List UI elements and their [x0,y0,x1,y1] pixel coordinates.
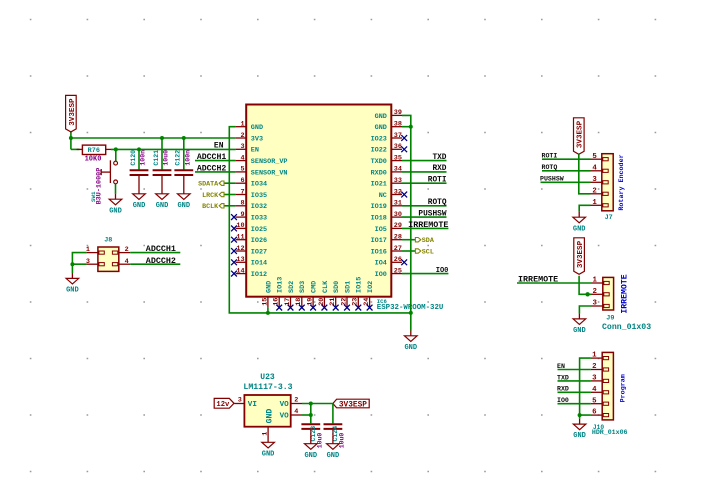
svg-text:29: 29 [394,222,402,230]
svg-text:SENSOR_VP: SENSOR_VP [251,158,288,166]
IC6 pin 5 (SENSOR_VN) [236,166,288,178]
J7 field Rotary Encoder [618,154,626,210]
svg-text:IO19: IO19 [371,203,387,211]
svg-text:4: 4 [294,408,298,416]
connector J8 [86,236,130,271]
svg-text:GND: GND [265,281,273,293]
svg-text:RXD0: RXD0 [371,169,387,177]
wire ADCCH1 from J8 pin 2 [130,252,180,254]
net label TXD (at IC6) [432,154,446,162]
IC6 pin 21 (SD0) [329,281,341,311]
ground (J7) [573,212,586,233]
svg-text:GND: GND [266,409,275,424]
svg-text:ADCCH2: ADCCH2 [146,256,176,266]
svg-text:J7: J7 [605,214,613,222]
power flag 3V3ESP (J9) [574,238,585,274]
regulator U23 body [244,395,290,427]
svg-text:C121: C121 [153,150,160,166]
wire ADCCH2 to pin 5 [195,171,236,173]
svg-text:2: 2 [125,246,129,254]
junction pin38 GND [409,125,413,129]
svg-text:10u0: 10u0 [163,150,170,166]
wire TXD to J10 pin 3 [558,380,591,382]
svg-text:3: 3 [592,176,597,184]
junction pin15 GND [266,311,270,315]
svg-text:IO35: IO35 [251,192,267,200]
svg-text:6: 6 [592,409,597,417]
svg-text:IO25: IO25 [251,226,267,234]
svg-text:9: 9 [241,211,245,219]
svg-text:EN: EN [251,147,259,155]
svg-text:SD2: SD2 [288,281,296,293]
connector J9 [592,277,614,310]
wire J10 pin 1 loop to pin 6 and ground [580,358,591,419]
capacitor C124 [324,424,343,441]
wire GND pins 39/38 down right side [402,115,411,330]
junction 3V3/C122 [182,136,186,140]
IC6 reference [377,298,388,305]
svg-text:IO0: IO0 [375,271,387,279]
wire ADCCH2 from J8 pin 4 [130,263,180,265]
J10 reference [593,424,604,431]
ground (C122) [177,189,190,210]
svg-text:10: 10 [236,222,244,230]
svg-text:EN: EN [214,142,224,151]
svg-text:3: 3 [592,300,597,308]
svg-text:GND: GND [156,202,169,210]
IC6 pin 25 (IO0) [375,267,402,279]
svg-text:10u0: 10u0 [339,433,346,449]
IC6 pin 30 (IO18) [371,211,402,223]
svg-text:NC: NC [379,192,387,200]
svg-text:IO21: IO21 [371,181,387,189]
svg-text:27: 27 [394,245,402,253]
svg-text:ROTI: ROTI [542,153,558,160]
wire SDA from pin 28 [402,239,415,241]
U23 pin 1 (GND) [261,409,274,437]
svg-text:ROTI: ROTI [428,177,447,185]
svg-text:GND: GND [177,202,190,210]
svg-text:14: 14 [236,267,244,275]
J9 reference [606,314,614,322]
svg-text:100n: 100n [185,150,192,166]
svg-text:IRREMOTE: IRREMOTE [518,274,558,284]
svg-text:2: 2 [592,288,596,296]
J10 value HDR_01x06 [592,429,628,436]
svg-text:VI: VI [248,401,257,409]
svg-text:35: 35 [394,154,402,162]
svg-text:4: 4 [241,154,245,162]
wire TXD from pin 35 [402,160,447,162]
svg-text:1: 1 [261,432,269,436]
svg-text:2: 2 [592,187,596,195]
svg-text:3: 3 [241,143,245,151]
net label RXD (at IC6) [432,165,446,173]
C123 value 10u0 [316,433,323,449]
svg-text:38: 38 [394,121,402,129]
svg-text:IO4: IO4 [375,260,387,268]
IC6 pin 18 (SD3) [295,281,307,311]
svg-text:IO0: IO0 [557,397,569,404]
svg-text:IO15: IO15 [356,277,364,293]
wire SDATA to pin 6 [224,182,236,184]
wire IRREMOTE from pin 29 [402,227,448,229]
IC6 pin 16 (IO13) [273,277,285,311]
IC6 pin 31 (IO19) [371,200,402,212]
U23 pin 4 (VO) [280,408,302,421]
svg-text:25: 25 [394,267,402,275]
svg-text:ADCCH2: ADCCH2 [197,165,227,174]
IC6 pin 39 (GND) [375,109,402,121]
svg-text:4: 4 [125,258,129,266]
svg-text:Program: Program [620,374,628,402]
junction J9 pin 2 [585,292,589,296]
svg-text:ADCCH1: ADCCH1 [146,244,176,254]
svg-text:GND: GND [133,202,146,210]
junction U23 VO pin 4 [309,413,313,417]
svg-text:3: 3 [592,375,597,383]
global label 3V3ESP (at U23 output) [333,399,369,409]
ESP32 module IC6 body [246,105,391,297]
net label ROTI (at J7) [542,153,558,160]
svg-text:C120: C120 [130,150,137,166]
wire SCL from pin 27 [402,250,415,252]
wire IRREMOTE to J9 pin 1 [517,282,592,284]
wire EN to J10 pin 2 [558,369,591,371]
ground (C123) [304,438,317,459]
J7 reference [605,214,613,222]
wire 3V3 bus to pin 2 [71,137,236,139]
IC6 pin 3 (EN) [236,143,259,155]
svg-text:12v: 12v [216,401,230,409]
IC6 pin 9 (IO33) [231,211,267,223]
IC6 pin 26 (IO4) [375,256,407,268]
svg-text:RXD: RXD [557,386,569,393]
IC6 pin 14 (IO12) [231,267,267,279]
net label PUSHSW (at IC6) [418,210,446,218]
net label ADCCH2 (at IC6) [197,165,227,174]
capacitor C121 [153,150,172,189]
IC6 pin 12 (IO27) [231,245,267,257]
svg-text:RXD: RXD [432,165,446,173]
svg-text:J8: J8 [104,236,112,244]
svg-text:37: 37 [394,132,402,140]
svg-text:31: 31 [394,200,402,208]
net label RXD (at J10) [557,386,569,393]
IC6 pin 33 (IO21) [371,177,402,189]
net label ROTI (at IC6) [428,177,447,185]
svg-text:GND: GND [251,124,263,132]
svg-text:EN: EN [557,363,565,370]
junction EN/C120 [137,147,141,151]
capacitor C123 [301,424,320,441]
wire J9 pin 3 to ground [579,306,591,314]
svg-text:LRCK: LRCK [202,192,219,200]
svg-text:4: 4 [592,164,597,172]
net label ROTQ (at J7) [542,164,558,171]
ground (IC6 GND bus) [404,331,417,352]
wire 3V3ESP to J9 pin 2 [579,276,591,295]
IC6 pin 37 (IO23) [371,132,408,144]
IC6 pin 22 (SD1) [340,281,352,311]
svg-text:IO18: IO18 [371,215,387,223]
svg-text:28: 28 [394,234,402,242]
U23 value LM1117-3.3 [243,383,292,392]
svg-text:2: 2 [592,363,596,371]
net label ADCCH1 (at IC6) [197,153,227,162]
IC6 pin 34 (RXD0) [371,166,402,178]
hierarchical label SDATA [198,181,224,189]
svg-text:IRREMOTE: IRREMOTE [621,274,630,313]
IC6 pin 36 (IO22) [371,143,408,155]
connector J10 [591,352,614,420]
hierarchical label SCL [415,248,433,256]
wire 3V3ESP to C124 [332,404,334,424]
svg-text:ROTQ: ROTQ [542,164,558,171]
SW1 value B3U-1000P [96,168,104,205]
net label IRREMOTE (at IC6) [408,220,448,230]
svg-text:36: 36 [394,143,402,151]
svg-text:IO14: IO14 [251,260,267,268]
wire ROTI from pin 33 [402,182,447,184]
svg-text:ROTQ: ROTQ [428,199,447,207]
svg-text:3V3ESP: 3V3ESP [577,240,585,268]
wire PUSHSW to J7 pin 3 [541,181,591,183]
wire GND from pin 1 around left and bottom of IC6 [229,127,410,313]
svg-text:IO12: IO12 [251,271,267,279]
net label IO0 (at IC6) [436,267,449,275]
svg-text:SDA: SDA [422,237,435,245]
svg-text:SDATA: SDATA [198,181,219,189]
IC6 value ESP32-WROOM-32U [377,304,444,312]
svg-text:32: 32 [394,188,402,196]
net label EN (at J10) [557,363,565,370]
ground (J9) [573,314,586,335]
svg-text:IO2: IO2 [367,281,375,293]
svg-text:CMD: CMD [311,281,319,293]
junction J10 pin 6 [578,413,582,417]
net label EN (at IC6) [214,142,224,151]
IC6 pin 24 (IO2) [363,281,375,311]
svg-text:10K0: 10K0 [85,155,102,163]
svg-text:IO34: IO34 [251,181,267,189]
svg-text:10u0: 10u0 [316,433,323,449]
svg-text:IO32: IO32 [251,203,267,211]
svg-text:GND: GND [327,452,340,460]
svg-text:SD0: SD0 [333,281,341,293]
svg-text:SD3: SD3 [299,281,307,293]
hierarchical label SDA [415,237,434,245]
svg-text:PUSHSW: PUSHSW [418,210,446,218]
wire PUSHSW from pin 30 [402,216,447,218]
svg-text:100n: 100n [140,150,147,166]
IC6 pin 8 (IO32) [236,200,268,212]
IC6 pin 10 (IO25) [231,222,267,234]
svg-text:2: 2 [241,132,245,140]
svg-text:30: 30 [394,211,402,219]
wire C122 top lead (3V3 net) [183,138,185,169]
capacitor C120 [130,150,149,189]
wire J7 pin 1 to ground [579,205,590,212]
wire 3V3ESP to J7 pin 2 [579,154,591,194]
svg-text:TXD0: TXD0 [371,158,387,166]
svg-text:GND: GND [66,287,79,295]
wire RXD from pin 34 [402,171,447,173]
junction U23 VO/C123 [309,402,313,406]
svg-text:IO13: IO13 [277,277,285,293]
svg-text:VO: VO [280,401,290,409]
svg-text:BCLK: BCLK [202,203,219,211]
svg-text:IO27: IO27 [251,248,267,256]
svg-text:IO33: IO33 [251,215,267,223]
hierarchical label LRCK [202,192,224,200]
IC6 pin 27 (IO16) [371,245,402,257]
svg-text:U23: U23 [260,373,275,382]
ground (C120) [133,189,146,210]
wire pin 15 GND drop [267,307,269,313]
wire ROTI to J7 pin 5 [542,158,591,160]
svg-text:13: 13 [236,256,244,264]
resistor R76 [77,145,112,155]
svg-text:7: 7 [241,188,245,196]
junction 3V3ESP flag [69,136,73,140]
IC6 pin 11 (IO26) [231,234,267,246]
IC6 pin 13 (IO14) [231,256,267,268]
svg-text:1: 1 [241,121,245,129]
svg-text:IO22: IO22 [371,147,387,155]
ground (U23) [262,437,275,458]
C124 value 10u0 [339,433,346,449]
svg-text:GND: GND [573,432,586,440]
svg-text:GND: GND [573,327,586,335]
svg-text:ADCCH1: ADCCH1 [197,153,227,162]
svg-text:IRREMOTE: IRREMOTE [408,220,448,230]
global label 12v [214,398,234,409]
svg-text:26: 26 [394,256,402,264]
wire EN net (R76 to pin 3) [71,148,236,150]
connector J7 [591,153,614,211]
IC6 pin 28 (IO17) [371,234,402,246]
svg-text:GND: GND [404,344,417,352]
wire VO to 3V3ESP label [302,403,333,405]
svg-text:1: 1 [592,277,597,285]
net label ADCCH2 (at J8) [146,256,176,266]
IC6 pin 4 (SENSOR_VP) [236,154,288,166]
svg-text:2: 2 [294,397,298,405]
wire VO pin4 to junction [302,414,311,416]
svg-text:C122: C122 [175,150,182,166]
svg-text:TXD: TXD [557,374,569,381]
IC6 pin 7 (IO35) [236,188,268,200]
svg-text:6: 6 [241,177,245,185]
IC6 pin 32 (NC) [379,188,407,200]
svg-text:IO16: IO16 [371,248,387,256]
svg-text:4: 4 [592,386,597,394]
svg-text:11: 11 [236,234,244,242]
svg-text:5: 5 [241,166,245,174]
IC6 pin 17 (SD2) [284,281,296,311]
net label IRREMOTE (at J9) [518,274,558,284]
J10 field Program [620,374,628,402]
svg-text:3V3: 3V3 [251,135,263,143]
svg-text:5: 5 [592,397,597,405]
svg-text:GND: GND [109,207,122,215]
junction EN/SW1 [114,147,118,151]
wire SW1 bottom to ground [115,184,117,194]
svg-text:CLK: CLK [322,280,330,293]
IC6 pin 2 (3V3) [236,132,263,144]
wire RXD to J10 pin 4 [558,391,591,393]
J9 value Conn_01x03 [602,323,651,332]
svg-text:3V3ESP: 3V3ESP [577,120,585,148]
svg-text:VO: VO [280,413,290,421]
wire IO0 from pin 25 [402,273,448,275]
IC6 pin 6 (IO34) [236,177,268,189]
R76 value 10K0 [85,155,102,163]
svg-text:SENSOR_VN: SENSOR_VN [251,169,288,177]
ground (J10) [573,419,586,440]
svg-text:GND: GND [375,124,387,132]
svg-text:IO23: IO23 [371,135,387,143]
svg-text:3V3ESP: 3V3ESP [69,98,77,126]
net label TXD (at J10) [557,374,569,381]
svg-text:GND: GND [304,452,317,460]
wire 3V3ESP vertical from flag to EN resistor row [70,132,72,150]
svg-text:SD1: SD1 [344,281,352,293]
net label ROTQ (at IC6) [428,199,447,207]
power flag 3V3ESP (J7) [574,118,585,155]
ground (C121) [156,189,169,210]
IC6 pin 1 (GND) [236,121,263,133]
wire ROTQ to J7 pin 4 [542,170,591,172]
svg-text:IO0: IO0 [436,267,449,275]
IC6 pin 38 (GND) [375,121,402,133]
net label IO0 (at J10) [557,397,569,404]
wire J8 pins 1/3 to ground [72,253,86,274]
svg-text:15: 15 [261,298,269,306]
svg-text:GND: GND [262,450,275,458]
svg-text:Rotary Encoder: Rotary Encoder [618,154,626,210]
svg-text:GND: GND [573,225,586,233]
IC6 pin 23 (IO15) [352,277,364,311]
wire C121 top lead (3V3 net) [161,138,163,169]
svg-text:Conn_01x03: Conn_01x03 [602,323,651,332]
svg-text:SCL: SCL [422,248,434,256]
C121 value 10u0 [163,150,170,166]
svg-text:12: 12 [236,245,244,253]
net label ADCCH1 (at J8) [146,244,176,254]
IC6 pin 15 (GND) [261,281,273,308]
svg-text:IO17: IO17 [371,237,387,245]
svg-text:LM1117-3.3: LM1117-3.3 [243,383,292,392]
svg-text:B3U-1000P: B3U-1000P [96,168,104,205]
svg-text:1: 1 [592,352,597,360]
ground (J8) [66,273,79,294]
wire C120 top lead (EN net) [138,149,140,169]
wire ADCCH1 to pin 4 [195,160,236,162]
svg-text:IO5: IO5 [375,226,387,234]
wire ROTQ from pin 31 [402,205,447,207]
junction 3V3/C121 [160,136,164,140]
ground (C124) [327,438,340,459]
wire IO0 to J10 pin 5 [558,403,591,405]
svg-text:5: 5 [592,153,597,161]
wire SW1 tap from EN net [115,149,117,161]
junction GND bus [409,311,413,315]
svg-text:TXD: TXD [432,154,446,162]
junction J8 pin3/GND [70,262,74,266]
svg-text:R76: R76 [88,147,100,155]
